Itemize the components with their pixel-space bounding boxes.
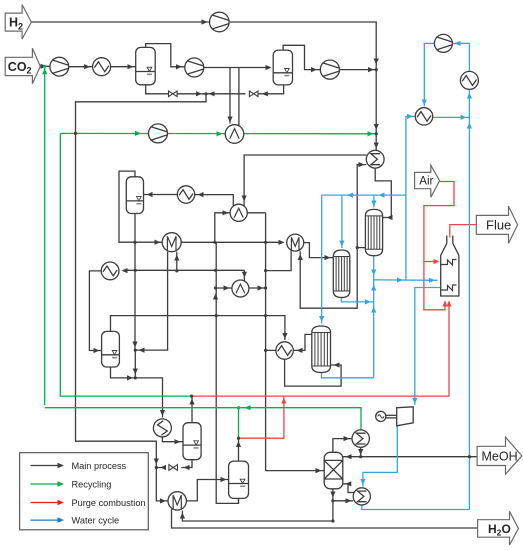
wire MeOH product line (343, 454, 477, 459)
heat exchanger E12 (steam drum) (460, 71, 478, 89)
wire V3 bottoms line (132, 214, 137, 351)
combustor F1 (fired boiler) (441, 236, 459, 297)
steam turbine T1 with generator G1 (376, 407, 414, 426)
wire V6 overhead riser (236, 438, 241, 461)
pump P1 (boiler feed) (434, 34, 452, 52)
wire M2 to R2 inlet (304, 243, 334, 261)
wire E3 to V3 (144, 192, 178, 197)
reboiler E11 (353, 488, 370, 505)
flash drum V2 (273, 50, 292, 85)
heat exchanger E5 (effluent cooler) (366, 150, 384, 168)
CO2 feed arrow (5, 48, 40, 84)
heat exchanger E2 (interchanger) (225, 125, 244, 144)
wire recycle down leg (60, 133, 191, 396)
wire E2 cooler return branch (238, 68, 240, 133)
wire R1 outlet to E5 (357, 162, 366, 248)
wire E8 to R3 inlet (285, 359, 342, 386)
wire V1 bottoms to valve (146, 85, 169, 94)
wire M1 bottom-left to V4 junction (135, 252, 168, 353)
Flue outlet arrow (476, 206, 517, 243)
Air inlet arrow (415, 165, 440, 197)
wire E5 to R1 inlet (375, 168, 392, 220)
wire condensate collector (266, 213, 325, 473)
wire E9 to V5 (162, 437, 183, 444)
wire R3 steam out (322, 373, 374, 378)
wire left collector (213, 242, 239, 503)
wire V4 bottoms (111, 367, 136, 381)
svg-text:MeOH: MeOH (482, 449, 518, 463)
valve VA3 (169, 465, 178, 471)
wire V7 bottoms to reboiler E11 (333, 498, 353, 503)
wire V4 vapour line (111, 316, 288, 340)
compressor K5 (recycle) (149, 124, 168, 143)
wire E1 to V1 (111, 64, 136, 69)
heat exchanger E13 (economizer) (415, 108, 432, 125)
wire E7 top feed (242, 270, 247, 292)
wire V6 bottoms loop (238, 498, 240, 503)
wire reboiler return to V7 (343, 481, 355, 492)
wire E4 outlet to collector (247, 212, 266, 214)
wire V3 top bypass to M1 junction (119, 171, 135, 242)
svg-text:Main process: Main process (72, 461, 127, 471)
flash drum V3 (126, 177, 143, 214)
wire air line (424, 182, 454, 265)
wire condensate return (362, 505, 470, 510)
column V5 (183, 423, 201, 460)
wire purge line to combustor (192, 301, 452, 397)
heat exchanger E4 (feed/effluent) (230, 204, 247, 221)
wire M3 to V6 (186, 477, 228, 501)
wire recycle gas line (60, 131, 375, 137)
wire M3 bottom to H2O line (172, 509, 478, 528)
svg-text:Air: Air (419, 176, 433, 188)
mixer M1 (162, 233, 181, 252)
column V6 (229, 461, 249, 498)
wire E7 outlet to collector (249, 285, 266, 290)
valve VA2 (249, 91, 258, 97)
wire E2 cooler down branch (227, 68, 232, 124)
wire pump discharge (422, 43, 435, 106)
wire V1 overhead to C2 (146, 44, 185, 70)
wire right riser (467, 89, 472, 509)
svg-text:Flue: Flue (486, 218, 511, 233)
reactor R1 (365, 209, 382, 255)
wire steam drum loop top (452, 41, 469, 72)
compressor K4 (syngas) (320, 60, 339, 79)
wire R3 cooling feed (319, 195, 324, 323)
wire distillate recycle line (45, 405, 361, 430)
wire C2 to V2 with E2 branch (204, 65, 272, 70)
wire valve VA1 to junction (76, 91, 207, 503)
wire junction to M1 (135, 240, 162, 245)
H2 feed arrow (5, 5, 31, 39)
wire superheated steam to turbine (412, 288, 441, 406)
heat exchanger E1 (CO2 cooler) (93, 58, 111, 76)
MeOH outlet arrow (477, 437, 522, 474)
compressor K2 (CO2 stage 2) (185, 58, 204, 77)
wire R2 cooling feed (339, 195, 344, 248)
wire E10 to MeOH line (358, 447, 363, 456)
reactor R2 (333, 250, 350, 298)
wire vessels bottoms to E9 (133, 350, 165, 417)
wire V6 overhead green leg (238, 408, 240, 439)
flash drum V4 (102, 331, 120, 367)
wire valve VA3 to M3 (156, 465, 166, 470)
wire V2 bottoms to valve VA2 (258, 85, 284, 97)
wire M1 bottom riser (174, 252, 179, 271)
svg-text:Water cycle: Water cycle (72, 515, 120, 525)
wire V7 overhead to E10 (333, 436, 352, 452)
packed column V7 (distillation) (324, 452, 343, 489)
wire valve VA2 to junction (206, 91, 245, 96)
wire R1 cooling feed (371, 195, 376, 207)
compressor K3 (H2 feed) (210, 12, 230, 32)
svg-text:Purge combustion: Purge combustion (72, 498, 146, 508)
heat exchanger E7 (232, 280, 249, 297)
reactor R3 (312, 326, 331, 373)
wire recycle water to M3 (180, 511, 333, 522)
wire flue gas line (450, 225, 476, 238)
wire V5 bottoms to valve VA3 (181, 460, 192, 470)
mixer M2 (287, 234, 304, 251)
wire R1 outlet down to M2 riser (298, 248, 358, 309)
wire junctions (43, 65, 471, 523)
wire M2 bottom-left to collector (266, 251, 292, 271)
wire V2 overhead to C4 (283, 45, 320, 72)
wire steam riser (371, 280, 376, 378)
heat exchanger E6 (101, 262, 119, 280)
wire E6 feed header (122, 268, 245, 273)
wire V5 purge riser (189, 396, 194, 423)
H2O outlet arrow (478, 511, 519, 545)
wire feedwater riser (406, 114, 415, 280)
wire R2 steam out (341, 298, 373, 305)
wire E4 to E3 (195, 192, 234, 217)
wire recycle riser to CO2 feed (42, 68, 47, 405)
flash drum V1 (136, 47, 156, 84)
wire economizer cross line (433, 115, 470, 120)
wire E5 hot outlet to E4 (242, 155, 367, 217)
wire M1 to M2 process line (181, 240, 284, 245)
heat exchanger E9 (153, 419, 171, 437)
wire air split to burners (424, 262, 448, 310)
wire cooling header (322, 193, 406, 198)
wire turbine exhaust (360, 425, 397, 487)
wire CO2 feed line (40, 64, 50, 69)
wire V7 bottoms (330, 489, 335, 521)
wire H2 feed line (31, 19, 379, 150)
wire E8 to collector (266, 349, 276, 351)
wire R1 steam out (371, 256, 376, 280)
wire E7 left feed (216, 285, 232, 290)
wire purge branch (239, 396, 287, 438)
mixer M3 (168, 492, 186, 510)
heat exchanger E8 (276, 342, 293, 359)
wire R3 outlet to E8 (293, 334, 312, 353)
wire C1 to E1 (69, 64, 93, 69)
wire E4 left riser (215, 210, 231, 242)
svg-text:Recycling: Recycling (72, 479, 112, 489)
valve VA1 (169, 91, 178, 97)
wire C4 to H2 line junction (340, 67, 377, 72)
legend (20, 453, 149, 530)
heat exchanger E3 (177, 186, 194, 203)
wire E6 to V4 (89, 271, 101, 353)
compressor K1 (CO2 feed) (50, 57, 69, 76)
wire steam header to boiler (374, 277, 438, 283)
condenser E10 (352, 430, 369, 447)
